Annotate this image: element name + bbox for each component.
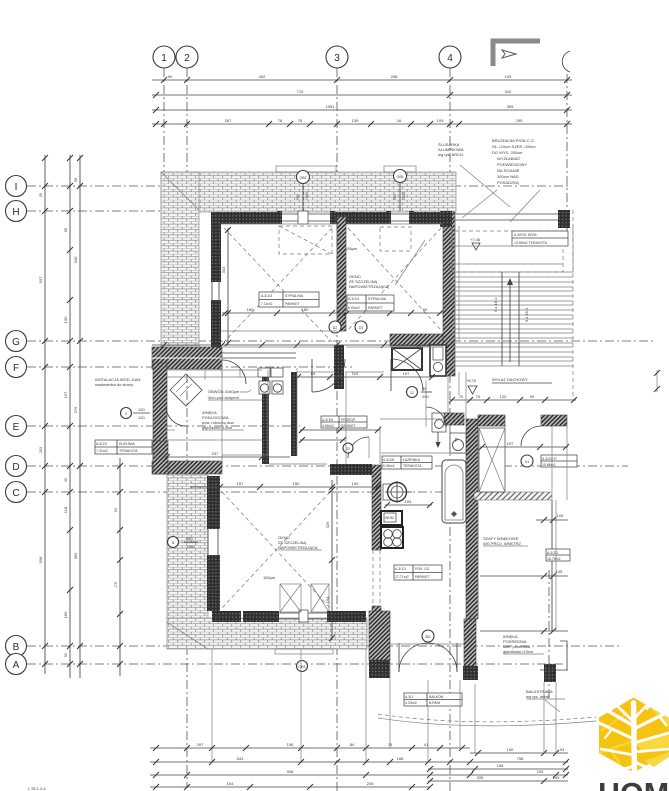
svg-text:9 x 16.1: 9 x 16.1 (524, 307, 529, 322)
svg-text:A.3/1/1: A.3/1/1 (395, 567, 406, 571)
bedroom2 label box (347, 295, 394, 311)
D-row thick wall left (152, 441, 222, 474)
living room left inner leaf lower (207, 555, 220, 611)
axis circle 1 (153, 46, 175, 68)
kitchen door arc (222, 360, 246, 384)
svg-text:63: 63 (114, 508, 118, 512)
svg-text:4.56m2: 4.56m2 (322, 424, 334, 428)
top dimension line 1 (152, 74, 572, 83)
+6.70 roof hatch text (466, 377, 552, 394)
svg-text:1900: 1900 (186, 544, 196, 549)
shaft 2 with wc (430, 345, 446, 376)
svg-text:NA ŚCIANIE: NA ŚCIANIE (497, 168, 520, 173)
svg-text:118: 118 (63, 506, 68, 513)
top wall inner leaf segment 1 (211, 212, 280, 224)
svg-text:200: 200 (422, 394, 429, 399)
svg-text:WYŻŁABIAĆ: WYŻŁABIAĆ (497, 156, 520, 161)
bottom dimension line 1 left (150, 742, 470, 751)
svg-text:76: 76 (278, 118, 283, 123)
top dimension line 3 (152, 104, 572, 113)
stairs bottom dim line (449, 394, 577, 403)
svg-text:155μm: 155μm (345, 246, 358, 251)
north arrow (493, 41, 540, 66)
balkon label box (404, 693, 462, 706)
svg-text:6.93m2: 6.93m2 (348, 306, 360, 310)
exterior brick wall top (161, 172, 456, 212)
corridor dim (295, 371, 435, 380)
svg-text:1500: 1500 (305, 192, 309, 200)
svg-text:156: 156 (287, 742, 294, 747)
apt2 right boundary line (566, 426, 568, 500)
svg-text:9 x 16.1: 9 x 16.1 (493, 297, 498, 312)
svg-text:PODWIESZONY: PODWIESZONY (497, 162, 527, 167)
window W1 top (280, 211, 333, 224)
svg-text:140: 140 (507, 747, 514, 752)
svg-text:A.3/1: A.3/1 (405, 695, 413, 699)
svg-text:300cm NAD: 300cm NAD (497, 174, 519, 179)
wc wall (291, 372, 297, 456)
wardrobe with X (479, 428, 505, 492)
svg-text:360: 360 (73, 552, 78, 559)
kuchnia label box (95, 440, 152, 454)
svg-text:NAPOWIETRZAJĄCĄ: NAPOWIETRZAJĄCĄ (349, 284, 389, 289)
top dimension line 4 (152, 118, 572, 127)
svg-text:1500: 1500 (402, 192, 406, 200)
svg-text:80: 80 (423, 307, 428, 312)
svg-text:93: 93 (560, 747, 565, 752)
top wall inner leaf segment 2 (333, 212, 389, 224)
okno text bedroom2 (349, 240, 425, 289)
furniture dashed bed1 (279, 226, 332, 254)
bottom wall inner leaf seg2 (243, 611, 276, 622)
stairs walk line with arrow (507, 278, 513, 362)
balcony left pier wall (369, 611, 390, 678)
bed rooms face lines (221, 224, 443, 347)
svg-text:160: 160 (63, 611, 68, 618)
french window symbol 2 (311, 584, 329, 612)
svg-text:PRZEDP.: PRZEDP. (341, 418, 356, 422)
bottom dimension line 1 right (470, 747, 568, 756)
svg-text:E: E (13, 422, 20, 433)
svg-text:150μm: 150μm (263, 575, 276, 580)
axis circle F (6, 357, 27, 378)
kitchen sink (383, 481, 412, 503)
stairs treads (452, 272, 573, 366)
axis line A horizontal (27, 663, 565, 665)
svg-text:A.3/KS1 WYM.: A.3/KS1 WYM. (514, 233, 537, 237)
bedroom divider wall (337, 217, 346, 331)
top wall inner leaf segment 3 (411, 212, 447, 224)
svg-text:I: I (15, 182, 18, 193)
svg-text:237: 237 (212, 451, 219, 456)
svg-text:76: 76 (388, 742, 393, 747)
svg-text:10.86m2: 10.86m2 (542, 463, 556, 467)
bottom right wall block (544, 664, 556, 682)
door circles D2 D3 (329, 321, 367, 333)
svg-text:50: 50 (64, 653, 68, 657)
bottom dimension line 3 (150, 769, 569, 778)
svg-text:WG PROJ. WNĘTRZ: WG PROJ. WNĘTRZ (483, 541, 522, 546)
living vertical dim (325, 480, 335, 641)
svg-text:900: 900 (393, 194, 397, 200)
svg-text:12: 12 (410, 391, 414, 395)
svg-text:205: 205 (477, 775, 484, 780)
bedroom2 right wall (443, 212, 455, 376)
left dim extra numbers (39, 178, 78, 657)
svg-text:70: 70 (476, 394, 481, 399)
svg-text:PARKIET: PARKIET (415, 575, 431, 579)
svg-text:267: 267 (225, 118, 232, 123)
svg-text:nawiewnika do strony: nawiewnika do strony (95, 382, 133, 387)
airflow dashed living (222, 492, 330, 608)
svg-text:01: 01 (525, 459, 530, 464)
kitchen corner cabinet diamond (166, 374, 202, 426)
svg-text:OB5: OB5 (396, 175, 403, 179)
corridor top wall stub (222, 353, 296, 358)
right wing axis dashdot (548, 570, 550, 700)
interior dim line corridor (152, 342, 453, 348)
svg-text:wg rys. ARCH.: wg rys. ARCH. (438, 152, 464, 157)
svg-text:130: 130 (63, 316, 68, 323)
svg-text:A.3/1/2: A.3/1/2 (96, 442, 107, 446)
svg-text:D2: D2 (333, 326, 338, 330)
window sill protrusions (276, 166, 416, 172)
lazienka label box (382, 456, 432, 469)
svg-text:90: 90 (168, 74, 173, 79)
svg-text:17.71m2: 17.71m2 (395, 575, 409, 579)
svg-text:150: 150 (293, 481, 300, 486)
axis circle 4 (439, 46, 461, 68)
svg-text:7.11m2: 7.11m2 (261, 302, 272, 306)
svg-text:wg rys. detali: wg rys. detali (526, 694, 549, 699)
terrace north parapet right block (558, 210, 570, 228)
apt2 interior light lines (478, 426, 556, 631)
svg-text:180: 180 (302, 307, 309, 312)
bottom wall inner leaf seg1 (212, 611, 241, 622)
svg-text:109: 109 (437, 118, 444, 123)
axis line 3 vertical (336, 68, 338, 791)
left wall inner leaf lower (211, 300, 221, 347)
svg-text:A.3/1/4: A.3/1/4 (348, 297, 359, 301)
svg-text:A.3/1/3: A.3/1/3 (261, 294, 272, 298)
apt2 lower dim line (480, 569, 568, 579)
szafy text (483, 536, 528, 546)
axis circle 5 partial (562, 51, 570, 72)
axis circle H (6, 201, 27, 222)
mid wall at bath (330, 464, 372, 475)
interior dim line bedrooms (222, 307, 443, 316)
svg-text:507: 507 (38, 276, 43, 283)
svg-text:1: 1 (161, 53, 167, 64)
left dimension line 3 (73, 155, 83, 678)
left dimension line 2 (63, 155, 73, 678)
axis circle A (6, 654, 27, 675)
svg-text:598: 598 (38, 556, 43, 563)
right wing vertical line (551, 500, 553, 631)
wneka text kitchen (202, 410, 244, 430)
svg-text:340: 340 (73, 256, 78, 263)
landing dashed rect (455, 231, 563, 272)
bedroom2 door arc (391, 359, 423, 391)
svg-text:120: 120 (138, 415, 145, 420)
svg-text:543: 543 (237, 756, 244, 761)
svg-text:OB3: OB3 (298, 665, 305, 669)
svg-text:16: 16 (397, 118, 402, 123)
kitchen circle Z (121, 407, 151, 420)
apt2 room label box 2 (546, 549, 570, 561)
svg-text:298: 298 (391, 74, 398, 79)
right wing horizontal wall seg1 (478, 415, 505, 426)
entry door arc (426, 376, 448, 427)
svg-text:194: 194 (325, 596, 330, 603)
svg-text:TERAKOTA: TERAKOTA (403, 464, 422, 468)
svg-text:F: F (13, 363, 19, 374)
svg-text:+7.46: +7.46 (470, 237, 481, 242)
right wing bottom dims (480, 628, 568, 634)
axis circle B (6, 636, 27, 657)
svg-text:B: B (13, 642, 20, 653)
axis line 4 vertical (449, 68, 451, 791)
bottom extra tick group (184, 745, 559, 790)
svg-text:900: 900 (296, 194, 300, 200)
axis line B horizontal (27, 645, 620, 647)
svg-text:4: 4 (447, 53, 453, 64)
apt2 room label box (541, 455, 577, 467)
airflow dashed bedroom1 (224, 228, 332, 342)
svg-text:OBWÓD 4160μm: OBWÓD 4160μm (208, 389, 240, 394)
apartment2 door arc (521, 426, 541, 467)
svg-text:205: 205 (367, 781, 374, 786)
svg-text:D: D (12, 462, 19, 473)
top dimension line 2 (152, 89, 572, 98)
svg-text:84: 84 (350, 742, 355, 747)
axis line 1 vertical (163, 68, 165, 298)
svg-text:A: A (13, 660, 20, 671)
svg-text:100: 100 (352, 481, 359, 486)
svg-text:310: 310 (505, 89, 512, 94)
corridor face lines (222, 359, 466, 464)
bathtub (442, 460, 466, 523)
axis circle E (6, 416, 27, 437)
axis line H horizontal (27, 210, 272, 212)
axis circle 2 (176, 46, 198, 68)
bathroom dim ticks (384, 499, 433, 508)
wc fixtures (258, 368, 283, 394)
HOME logo hexagon tree (599, 698, 669, 781)
svg-text:105: 105 (556, 569, 563, 574)
svg-text:139: 139 (352, 118, 359, 123)
kitchen counter line (167, 369, 262, 377)
axis circle C (6, 482, 27, 503)
window W2 top (389, 214, 411, 221)
svg-text:B3: B3 (426, 634, 432, 639)
svg-text:710: 710 (297, 89, 304, 94)
svg-text:+8.70: +8.70 (466, 378, 477, 383)
exterior brick wall left upper (161, 172, 199, 364)
svg-text:D3: D3 (359, 326, 364, 330)
svg-text:L 25 1 0.4: L 25 1 0.4 (28, 786, 46, 791)
window jamb blocks left wall (207, 277, 221, 560)
living room left inner leaf upper (207, 476, 220, 529)
svg-text:BRUZDA NA PION C.O.: BRUZDA NA PION C.O. (492, 138, 535, 143)
brick corner miters (161, 172, 208, 649)
stove 4 burners (381, 511, 402, 525)
svg-text:A.3/1/5: A.3/1/5 (322, 418, 333, 422)
balcony door arcs (390, 643, 464, 672)
right wing main wall vertical (466, 419, 478, 619)
svg-text:SYPIALNIA: SYPIALNIA (285, 294, 304, 298)
svg-text:głębokość=13cm: głębokość=13cm (503, 649, 534, 654)
svg-text:50: 50 (422, 386, 427, 391)
axis line E horizontal (27, 425, 300, 427)
instalacja text (95, 377, 141, 387)
axis line 5 vertical (566, 74, 568, 235)
svg-text:197: 197 (507, 441, 514, 446)
terrace inner lines (452, 227, 573, 272)
entry landing lines (455, 212, 466, 419)
svg-text:PARKIET: PARKIET (341, 424, 357, 428)
balcony edge dashed curve (378, 714, 596, 726)
svg-text:16.75m2: 16.75m2 (547, 557, 561, 561)
window axes vertical lines (212, 649, 475, 762)
bottom dimension line 4 (150, 781, 430, 790)
corridor wall piece at bed2 door (334, 345, 344, 389)
bedroom1 door arc (312, 359, 345, 392)
duct shaft with X (390, 334, 443, 370)
svg-text:175: 175 (114, 582, 118, 588)
svg-text:WYŁAZ DACHOWY: WYŁAZ DACHOWY (492, 377, 528, 382)
svg-text:197: 197 (403, 371, 410, 376)
svg-text:104: 104 (227, 781, 234, 786)
przedpokoj label box (321, 416, 367, 428)
svg-text:GŁ.=10cm SZER.=20cm: GŁ.=10cm SZER.=20cm (492, 144, 536, 149)
svg-text:DO WYS. 200cm: DO WYS. 200cm (492, 150, 523, 155)
living top dim (190, 481, 381, 490)
right margin small dim (654, 370, 660, 392)
svg-text:C: C (12, 488, 19, 499)
bottom window circle (297, 661, 308, 672)
axis circle G (6, 331, 27, 352)
svg-text:13.59m2 TERAKOTA: 13.59m2 TERAKOTA (514, 241, 548, 245)
furniture dashed bed2 (348, 227, 441, 330)
exterior brick wall left lower (167, 474, 208, 622)
axis line C horizontal (27, 491, 455, 493)
exterior brick wall bottom (167, 618, 367, 649)
terrace level label box (512, 231, 568, 246)
svg-text:40: 40 (64, 478, 68, 482)
svg-text:SYPIALNIA: SYPIALNIA (368, 297, 387, 301)
bedroom1 vertical dim (221, 227, 231, 346)
svg-text:ŁAZIENKA: ŁAZIENKA (403, 458, 421, 462)
apt2 ticks row (536, 513, 568, 523)
svg-text:POSADZKĄ: POSADZKĄ (497, 180, 519, 185)
bath window circle (407, 386, 433, 399)
bruzda leader lines (460, 165, 540, 222)
svg-text:76: 76 (298, 118, 303, 123)
bottom wall window (277, 610, 329, 622)
kitchen cabinet lines (167, 370, 262, 440)
+7.46 level mark (470, 237, 481, 250)
svg-text:2: 2 (184, 53, 190, 64)
svg-text:4.33m2: 4.33m2 (405, 701, 417, 705)
balcony door circle B3 (422, 630, 434, 642)
svg-text:25: 25 (39, 193, 43, 197)
window in lower-left wall (208, 529, 218, 555)
svg-text:160: 160 (247, 307, 254, 312)
svg-text:G: G (12, 337, 20, 348)
svg-text:głębokość=13cm: głębokość=13cm (202, 425, 233, 430)
svg-text:H: H (12, 207, 19, 218)
terrace north parapet lines (452, 214, 558, 220)
kitchen right wall (262, 370, 269, 464)
axis line D horizontal (27, 465, 628, 467)
kitchen bottom dim (164, 451, 290, 460)
balustrada text (526, 689, 565, 712)
svg-text:249: 249 (537, 769, 544, 774)
bath north line + flow arrow (381, 432, 466, 453)
svg-text:153: 153 (405, 499, 412, 504)
svg-text:908: 908 (287, 769, 294, 774)
balcony right pier wall (463, 619, 478, 680)
pok dzienny label box (394, 565, 442, 580)
left wall window circle (168, 536, 199, 549)
window stem numbers (296, 192, 406, 200)
corridor top thick wall (152, 347, 222, 369)
bottom sill protrusion (275, 649, 333, 654)
french window symbol 1 (280, 584, 301, 612)
axis circle I (6, 176, 27, 197)
slusarka text (438, 142, 464, 157)
window jamb blocks bottom wall (274, 611, 332, 622)
svg-text:90: 90 (530, 394, 535, 399)
bottom dimension line right y769 (427, 763, 569, 772)
axis line F horizontal (27, 366, 352, 368)
svg-text:TERAKOTA: TERAKOTA (119, 449, 138, 453)
bruzda text block (492, 138, 536, 185)
svg-text:297: 297 (197, 742, 204, 747)
right wing shelf wall (474, 492, 552, 500)
svg-text:329: 329 (325, 521, 330, 528)
washer P (450, 433, 466, 453)
left wall inner leaf upper (211, 215, 221, 282)
svg-text:7.31m2: 7.31m2 (96, 449, 108, 453)
window circle OB2 (297, 171, 310, 212)
svg-text:305: 305 (507, 104, 514, 109)
svg-text:380: 380 (186, 536, 193, 541)
svg-text:758: 758 (517, 756, 524, 761)
svg-text:157: 157 (237, 481, 244, 486)
svg-text:A.3/1/8: A.3/1/8 (383, 458, 394, 462)
wnęka posrednia text (503, 634, 544, 654)
svg-text:OB2: OB2 (299, 176, 306, 180)
wet room left wall (372, 465, 381, 614)
window circle OB5 (394, 170, 407, 212)
svg-text:105: 105 (557, 513, 564, 518)
corridor extra ticks (299, 427, 346, 443)
svg-text:WUM: WUM (385, 516, 394, 520)
svg-text:A.3/2/6 P.: A.3/2/6 P. (542, 457, 557, 461)
window jamb blocks top wall (277, 211, 414, 224)
svg-text:203: 203 (39, 447, 43, 453)
axis circle 3 (326, 46, 348, 68)
svg-text:BALKON: BALKON (429, 695, 444, 699)
svg-text:105: 105 (505, 74, 512, 79)
svg-text:120: 120 (500, 394, 507, 399)
svg-text:6.36m2: 6.36m2 (383, 464, 395, 468)
okno text living (278, 535, 322, 550)
svg-text:120: 120 (138, 407, 145, 412)
bottom wall inner leaf seg3 (329, 611, 366, 622)
